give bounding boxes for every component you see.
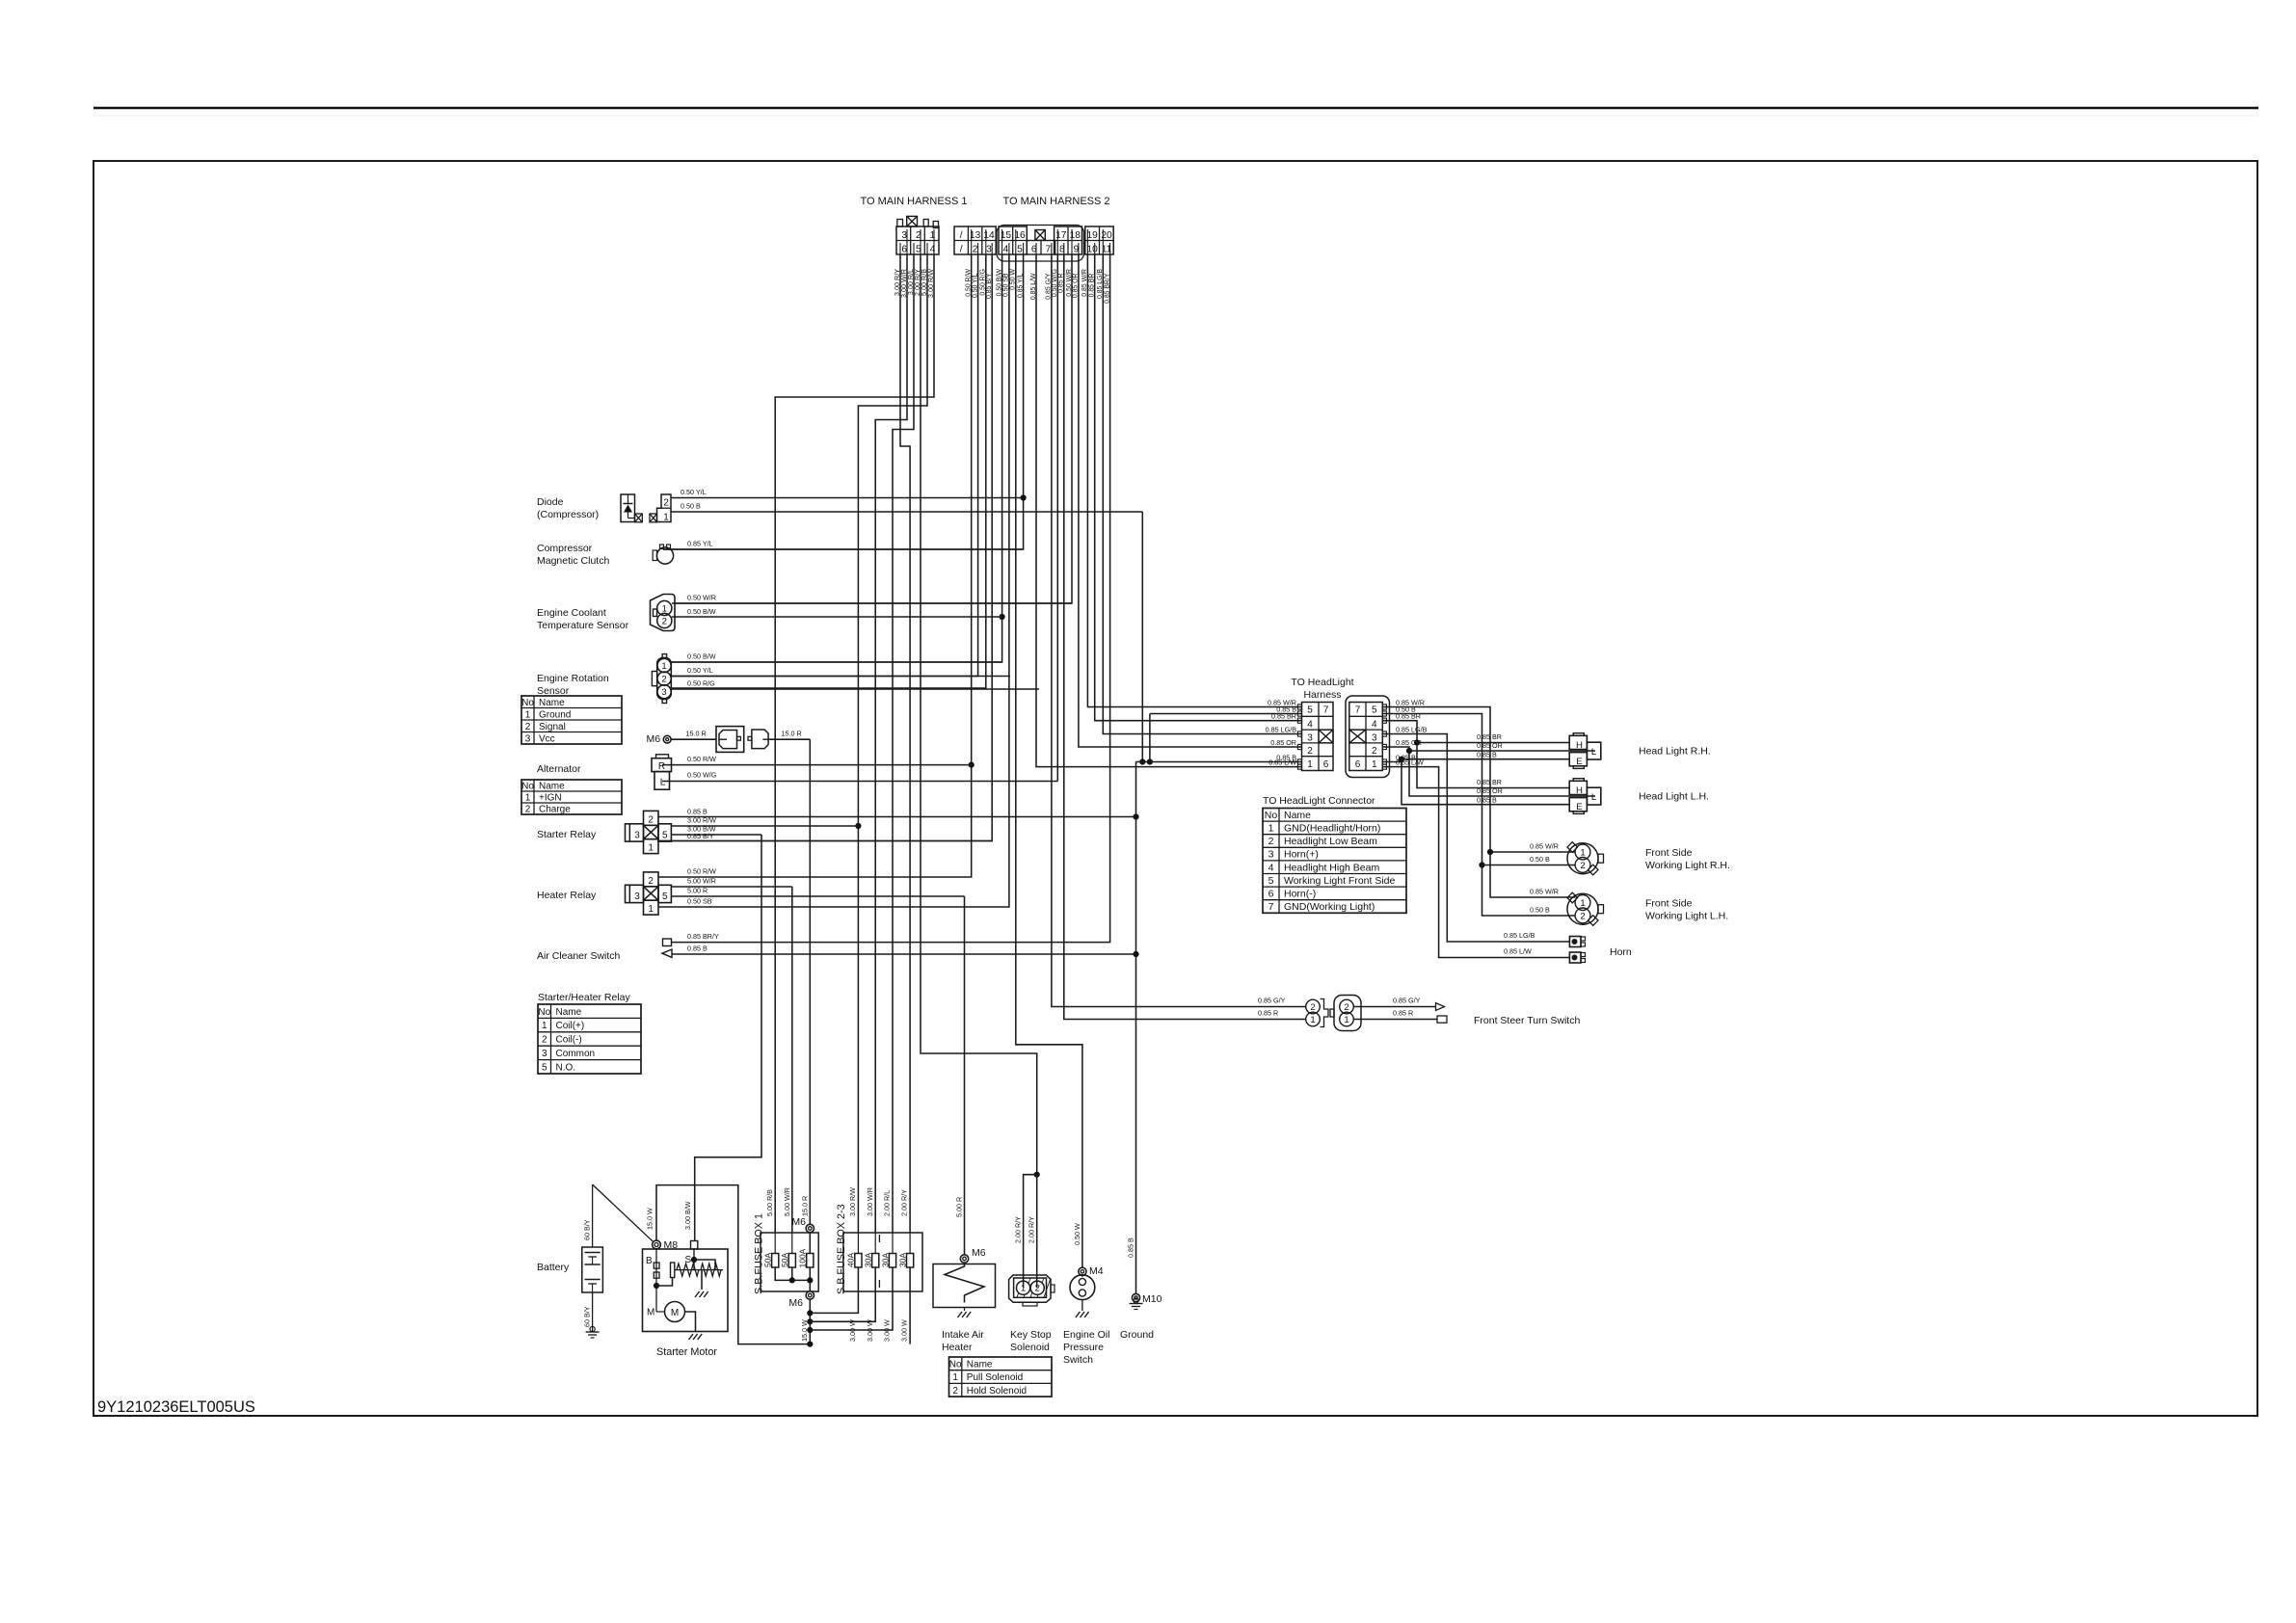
svg-text:Engine Oil: Engine Oil <box>1063 1329 1109 1341</box>
svg-text:S.B.FUSE BOX 2-3: S.B.FUSE BOX 2-3 <box>836 1204 847 1294</box>
svg-text:50A: 50A <box>780 1253 789 1267</box>
svg-text:Pull Solenoid: Pull Solenoid <box>967 1372 1023 1383</box>
svg-text:L: L <box>1591 747 1597 758</box>
svg-text:Heater: Heater <box>942 1342 973 1353</box>
svg-text:0.85 Y/L: 0.85 Y/L <box>687 540 713 548</box>
svg-text:3.00 R/W: 3.00 R/W <box>848 1187 857 1216</box>
svg-text:H: H <box>1576 785 1583 796</box>
svg-text:Battery: Battery <box>537 1262 570 1273</box>
svg-text:0.50 B: 0.50 B <box>1530 855 1550 864</box>
svg-text:2: 2 <box>525 805 531 815</box>
svg-text:Working Light Front Side: Working Light Front Side <box>1284 875 1396 887</box>
svg-text:E: E <box>1576 802 1582 812</box>
svg-text:Coil(-): Coil(-) <box>556 1035 582 1046</box>
svg-text:1: 1 <box>662 604 667 615</box>
svg-text:Name: Name <box>556 1007 582 1018</box>
svg-text:1: 1 <box>1580 848 1585 859</box>
svg-text:Head Light R.H.: Head Light R.H. <box>1639 746 1711 758</box>
svg-text:1: 1 <box>1307 759 1313 770</box>
svg-text:1: 1 <box>661 661 666 672</box>
svg-text:0.85 B: 0.85 B <box>687 945 707 953</box>
svg-text:Key Stop: Key Stop <box>1010 1329 1052 1341</box>
svg-text:2: 2 <box>1580 911 1585 921</box>
svg-text:0.50 W: 0.50 W <box>1073 1223 1081 1245</box>
svg-text:2: 2 <box>1372 746 1377 757</box>
svg-text:1: 1 <box>1580 898 1585 909</box>
svg-text:M6: M6 <box>788 1297 803 1309</box>
svg-text:7: 7 <box>1045 245 1051 255</box>
svg-text:M6: M6 <box>647 733 661 745</box>
svg-text:H: H <box>1576 740 1583 751</box>
svg-text:3.00 W: 3.00 W <box>848 1319 857 1342</box>
svg-text:60 B/Y: 60 B/Y <box>583 1306 592 1327</box>
svg-text:3.00 B/W: 3.00 B/W <box>683 1201 692 1230</box>
svg-text:3.00 W/R: 3.00 W/R <box>866 1187 874 1216</box>
svg-text:60 B/Y: 60 B/Y <box>583 1219 592 1240</box>
svg-text:0.85 OR: 0.85 OR <box>1477 786 1503 795</box>
svg-text:5.00 R: 5.00 R <box>687 887 707 895</box>
svg-text:30A: 30A <box>880 1253 890 1267</box>
svg-text:Working Light R.H.: Working Light R.H. <box>1645 860 1730 871</box>
svg-text:Front Side: Front Side <box>1645 847 1693 859</box>
svg-text:0.50 SB: 0.50 SB <box>687 897 712 906</box>
svg-text:TO MAIN HARNESS 1: TO MAIN HARNESS 1 <box>860 196 967 207</box>
svg-text:1: 1 <box>1372 759 1377 770</box>
svg-text:M: M <box>671 1308 679 1318</box>
svg-text:Charge: Charge <box>539 805 571 815</box>
svg-text:7: 7 <box>1323 705 1329 716</box>
svg-text:Head Light L.H.: Head Light L.H. <box>1639 791 1709 803</box>
svg-text:15.0 W: 15.0 W <box>646 1208 654 1230</box>
svg-text:5.00 R/B: 5.00 R/B <box>765 1189 774 1216</box>
svg-text:0.85 B: 0.85 B <box>687 808 707 816</box>
svg-text:1: 1 <box>525 793 531 804</box>
svg-text:0.85 LG/B: 0.85 LG/B <box>1504 931 1535 940</box>
svg-text:1: 1 <box>648 904 654 915</box>
svg-text:15.0 W: 15.0 W <box>800 1319 809 1342</box>
svg-text:0.85 L/W: 0.85 L/W <box>1268 758 1296 766</box>
svg-text:Air Cleaner Switch: Air Cleaner Switch <box>537 950 621 962</box>
svg-text:4: 4 <box>1372 720 1377 731</box>
svg-text:Coil(+): Coil(+) <box>556 1021 585 1031</box>
svg-text:GND(Working Light): GND(Working Light) <box>1284 901 1375 913</box>
svg-text:TO MAIN HARNESS 2: TO MAIN HARNESS 2 <box>1002 196 1109 207</box>
svg-text:5.00 R: 5.00 R <box>955 1197 964 1217</box>
svg-text:M10: M10 <box>1142 1293 1162 1305</box>
svg-text:M4: M4 <box>1089 1265 1104 1277</box>
svg-text:0.85 B: 0.85 B <box>1477 751 1497 759</box>
svg-text:2: 2 <box>542 1035 547 1046</box>
svg-text:Headlight Low Beam: Headlight Low Beam <box>1284 836 1377 847</box>
svg-text:0.50 R/G: 0.50 R/G <box>687 679 715 688</box>
svg-text:3: 3 <box>542 1049 547 1059</box>
svg-text:15.0 R: 15.0 R <box>686 730 707 738</box>
svg-text:Diode: Diode <box>537 496 564 508</box>
svg-text:2: 2 <box>1307 746 1313 757</box>
svg-text:2: 2 <box>973 245 978 255</box>
svg-text:Starter/Heater Relay: Starter/Heater Relay <box>538 992 630 1003</box>
svg-text:Harness: Harness <box>1303 689 1341 701</box>
svg-text:5: 5 <box>542 1062 547 1073</box>
svg-text:6: 6 <box>1323 759 1329 770</box>
svg-text:2: 2 <box>1580 861 1585 871</box>
svg-text:1: 1 <box>663 513 669 523</box>
svg-text:1: 1 <box>648 843 654 854</box>
svg-text:5: 5 <box>1307 705 1313 716</box>
svg-text:1: 1 <box>1310 1015 1315 1025</box>
svg-text:Alternator: Alternator <box>537 763 581 775</box>
svg-text:0.85 G/Y: 0.85 G/Y <box>1258 997 1286 1005</box>
svg-text:0.85 G/Y: 0.85 G/Y <box>1393 997 1421 1005</box>
svg-text:Starter Motor: Starter Motor <box>656 1346 717 1358</box>
svg-text:2: 2 <box>648 814 654 825</box>
svg-text:Pressure: Pressure <box>1063 1342 1104 1353</box>
svg-text:Signal: Signal <box>539 722 566 732</box>
svg-text:Ground: Ground <box>539 709 571 720</box>
svg-text:L: L <box>660 778 666 788</box>
svg-text:Vcc: Vcc <box>539 733 555 744</box>
svg-text:4: 4 <box>1268 862 1274 873</box>
svg-text:0.50 Y/L: 0.50 Y/L <box>681 488 707 496</box>
svg-text:7: 7 <box>1268 901 1274 913</box>
svg-text:0.85 BR: 0.85 BR <box>1271 712 1296 721</box>
svg-text:5: 5 <box>1372 705 1377 716</box>
svg-text:/: / <box>960 245 963 255</box>
svg-text:3: 3 <box>1268 849 1274 861</box>
svg-text:4: 4 <box>1003 245 1009 255</box>
svg-text:3.00 R/W: 3.00 R/W <box>687 816 716 825</box>
svg-text:1: 1 <box>1268 823 1274 835</box>
svg-text:3: 3 <box>1372 732 1377 743</box>
svg-text:0.50 B/W: 0.50 B/W <box>687 607 716 616</box>
svg-text:40A: 40A <box>846 1253 856 1267</box>
svg-text:Engine Coolant: Engine Coolant <box>537 607 606 619</box>
svg-text:3: 3 <box>634 891 640 902</box>
svg-text:5: 5 <box>1268 875 1274 887</box>
svg-text:14: 14 <box>983 230 995 241</box>
svg-text:0.85 W/R: 0.85 W/R <box>1530 888 1559 896</box>
svg-text:2: 2 <box>1310 1002 1315 1013</box>
svg-text:2: 2 <box>525 722 531 732</box>
svg-text:10: 10 <box>1087 245 1099 255</box>
svg-text:Intake Air: Intake Air <box>942 1329 984 1341</box>
svg-text:0.85 B: 0.85 B <box>1127 1237 1135 1258</box>
svg-text:0.50 B/W: 0.50 B/W <box>687 652 716 661</box>
svg-text:0.85 R: 0.85 R <box>1258 1009 1278 1018</box>
svg-text:5.00 W/R: 5.00 W/R <box>687 877 716 886</box>
svg-text:M6: M6 <box>791 1216 806 1228</box>
svg-text:0.50 B: 0.50 B <box>681 502 701 511</box>
svg-text:5: 5 <box>1017 245 1023 255</box>
svg-text:3: 3 <box>986 245 992 255</box>
svg-text:2.00 R/L: 2.00 R/L <box>883 1190 892 1216</box>
svg-text:50A: 50A <box>763 1253 773 1267</box>
svg-text:2.00 R/Y: 2.00 R/Y <box>1028 1216 1036 1243</box>
svg-text:0.85 BR: 0.85 BR <box>1477 732 1502 741</box>
svg-text:E: E <box>1576 757 1582 767</box>
svg-text:0.85 B/Y: 0.85 B/Y <box>687 832 714 840</box>
svg-text:Name: Name <box>539 782 565 792</box>
svg-text:2.00 R/Y: 2.00 R/Y <box>1014 1216 1023 1243</box>
svg-text:No: No <box>538 1007 550 1018</box>
svg-text:1: 1 <box>542 1021 547 1031</box>
svg-text:3.00 W: 3.00 W <box>866 1319 874 1342</box>
svg-text:0.85 R: 0.85 R <box>1393 1009 1413 1018</box>
svg-text:0.85 OR: 0.85 OR <box>1270 738 1296 747</box>
svg-text:4: 4 <box>930 245 936 255</box>
svg-text:TO HeadLight: TO HeadLight <box>1291 677 1353 688</box>
svg-text:0.50 W/G: 0.50 W/G <box>687 771 717 780</box>
svg-text:No: No <box>1265 810 1278 821</box>
svg-text:5.00 W/R: 5.00 W/R <box>783 1187 791 1216</box>
svg-text:0.50 B: 0.50 B <box>1530 906 1550 915</box>
svg-text:3: 3 <box>1307 732 1313 743</box>
svg-text:4: 4 <box>1307 720 1313 731</box>
svg-text:0.50 R/W: 0.50 R/W <box>687 755 716 763</box>
svg-text:Solenoid: Solenoid <box>1010 1342 1050 1353</box>
svg-text:0.50 R/W: 0.50 R/W <box>687 867 716 876</box>
svg-text:Starter Relay: Starter Relay <box>537 829 597 840</box>
svg-text:19: 19 <box>1087 230 1099 241</box>
svg-text:Ground: Ground <box>1120 1329 1154 1341</box>
svg-text:Horn(-): Horn(-) <box>1284 889 1316 900</box>
svg-text:1: 1 <box>525 709 531 720</box>
svg-text:3: 3 <box>661 687 666 698</box>
svg-text:M6: M6 <box>972 1247 986 1259</box>
svg-text:Compressor: Compressor <box>537 543 593 554</box>
svg-text:2: 2 <box>662 617 667 627</box>
svg-text:0.85 OR: 0.85 OR <box>1477 741 1503 750</box>
svg-text:30A: 30A <box>897 1253 907 1267</box>
svg-text:0.85 BR/Y: 0.85 BR/Y <box>687 932 719 941</box>
svg-text:3.00 W: 3.00 W <box>900 1319 909 1342</box>
svg-text:2.00 R/Y: 2.00 R/Y <box>900 1189 909 1216</box>
svg-text:No: No <box>521 698 534 708</box>
svg-text:1: 1 <box>1344 1015 1348 1025</box>
svg-text:Engine Rotation: Engine Rotation <box>537 673 609 684</box>
svg-text:No: No <box>949 1359 962 1370</box>
svg-text:Front Steer Turn Switch: Front Steer Turn Switch <box>1474 1015 1580 1026</box>
svg-text:9Y1210236ELT005US: 9Y1210236ELT005US <box>97 1398 255 1416</box>
svg-text:Common: Common <box>556 1049 596 1059</box>
svg-text:Magnetic Clutch: Magnetic Clutch <box>537 555 609 567</box>
svg-text:Horn(+): Horn(+) <box>1284 849 1319 861</box>
svg-text:0.85 LG/B: 0.85 LG/B <box>1396 725 1428 733</box>
svg-text:Name: Name <box>1284 810 1311 821</box>
svg-text:2: 2 <box>648 876 654 887</box>
svg-text:5: 5 <box>662 891 668 902</box>
svg-text:15.0 R: 15.0 R <box>800 1196 809 1216</box>
svg-text:Headlight High Beam: Headlight High Beam <box>1284 862 1379 873</box>
svg-text:+IGN: +IGN <box>539 793 562 804</box>
svg-text:Front Side: Front Side <box>1645 898 1693 910</box>
svg-text:2: 2 <box>663 498 669 509</box>
svg-text:6: 6 <box>1355 759 1361 770</box>
svg-text:R: R <box>658 761 665 772</box>
svg-text:/: / <box>960 230 963 241</box>
svg-text:0.85 W/R: 0.85 W/R <box>1530 842 1559 851</box>
svg-text:100A: 100A <box>798 1248 808 1267</box>
svg-text:6: 6 <box>1268 889 1274 900</box>
svg-text:Working Light L.H.: Working Light L.H. <box>1645 911 1728 922</box>
svg-text:Horn: Horn <box>1610 946 1632 958</box>
svg-text:3: 3 <box>525 733 531 744</box>
svg-text:Switch: Switch <box>1063 1354 1093 1366</box>
svg-text:M: M <box>647 1308 654 1318</box>
svg-text:1: 1 <box>952 1372 958 1383</box>
svg-text:0.85 LG/B: 0.85 LG/B <box>1266 725 1297 733</box>
svg-text:No: No <box>521 782 534 792</box>
svg-text:15.0 R: 15.0 R <box>782 730 802 738</box>
svg-text:0.85 L/W: 0.85 L/W <box>1504 947 1532 956</box>
svg-text:30A: 30A <box>864 1253 873 1267</box>
svg-text:Temperature Sensor: Temperature Sensor <box>537 620 629 631</box>
svg-text:2: 2 <box>1344 1002 1348 1013</box>
svg-text:3: 3 <box>634 831 640 841</box>
svg-text:TO HeadLight Connector: TO HeadLight Connector <box>1263 795 1375 807</box>
svg-text:B: B <box>646 1256 653 1266</box>
svg-text:2: 2 <box>952 1386 958 1397</box>
svg-text:18: 18 <box>1070 230 1081 241</box>
svg-text:0.85 B: 0.85 B <box>1477 796 1497 805</box>
svg-text:7: 7 <box>1355 705 1361 716</box>
svg-text:0.85 BR: 0.85 BR <box>1477 778 1502 786</box>
svg-text:2: 2 <box>1268 836 1274 847</box>
svg-text:Heater Relay: Heater Relay <box>537 890 597 901</box>
svg-text:(Compressor): (Compressor) <box>537 509 599 520</box>
svg-text:Name: Name <box>967 1359 993 1370</box>
svg-text:3.00 W: 3.00 W <box>883 1319 892 1342</box>
svg-text:0.50 Y/L: 0.50 Y/L <box>687 666 713 675</box>
svg-text:N.O.: N.O. <box>556 1062 576 1073</box>
svg-text:5: 5 <box>662 831 668 841</box>
svg-text:L: L <box>1591 792 1597 803</box>
svg-text:GND(Headlight/Horn): GND(Headlight/Horn) <box>1284 823 1380 835</box>
svg-text:0.50 W/R: 0.50 W/R <box>687 594 716 602</box>
svg-text:Name: Name <box>539 698 565 708</box>
svg-text:Hold Solenoid: Hold Solenoid <box>967 1386 1027 1397</box>
svg-text:2: 2 <box>661 675 666 685</box>
svg-text:1: 1 <box>930 230 936 241</box>
